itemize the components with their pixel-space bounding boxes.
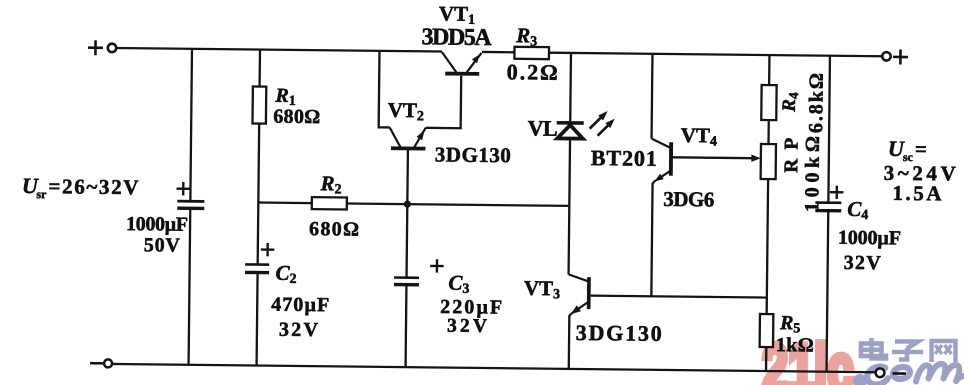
- watermark letter m of .com: [916, 364, 964, 382]
- svg-text:VL: VL: [528, 115, 558, 140]
- transistor VT2 emitter diagonal: [413, 128, 425, 149]
- svg-text:0.2Ω: 0.2Ω: [507, 59, 558, 85]
- wire C4 lower: [827, 211, 829, 372]
- wire C2 lower: [257, 273, 258, 366]
- LED VL cathode bar: [557, 121, 584, 125]
- wire bottom rail: [112, 364, 876, 372]
- plus sign input: [88, 40, 103, 55]
- wire VT2 collector branch: [379, 51, 391, 128]
- transistor VT4 base wire to RP: [673, 156, 752, 159]
- svg-text:680Ω: 680Ω: [273, 106, 320, 129]
- transistor VT4 emitter diagonal: [654, 171, 669, 181]
- svg-text:680Ω: 680Ω: [309, 218, 359, 241]
- svg-text:=: =: [915, 137, 927, 161]
- LED VL triangle: [557, 125, 583, 139]
- capacitor C1 plate bottom: [177, 206, 204, 210]
- watermark 21ic: [762, 331, 853, 385]
- transistor VT2 emitter arrow: [417, 130, 425, 140]
- minus sign bottom right: [893, 372, 906, 375]
- terminal bottom left minus: [104, 359, 112, 367]
- transistor VT2 base bar: [391, 146, 426, 150]
- wire VT4 emitter to VT3 base row: [651, 182, 654, 297]
- svg-text:32V: 32V: [844, 252, 882, 274]
- plus sign C4: [830, 186, 844, 200]
- plus sign C1: [176, 182, 190, 196]
- svg-text:=26~32V: =26~32V: [48, 174, 138, 199]
- transistor VT2 collector diagonal: [389, 127, 401, 148]
- plus sign output: [893, 49, 908, 64]
- transistor VT4 collector diagonal: [651, 139, 669, 148]
- minus sign bottom left: [90, 362, 103, 365]
- capacitor C2 plate bottom: [245, 271, 269, 275]
- watermark hanzi 网: [932, 341, 956, 362]
- resistor R1: [252, 86, 266, 123]
- wire R1 branch upper: [258, 50, 261, 87]
- LED VL light arrow 1: [590, 116, 603, 129]
- wire VT3 collector stem: [567, 206, 570, 274]
- watermark hanzi 电: [861, 338, 886, 359]
- svg-text:sr: sr: [36, 187, 47, 201]
- transistor VT4 base bar: [669, 142, 673, 175]
- svg-text:470µF: 470µF: [271, 294, 329, 317]
- transistor VT3 base bar: [587, 277, 591, 309]
- LED VL light arrow 2: [598, 123, 611, 136]
- wire R4 branch upper: [768, 55, 771, 85]
- capacitor C4 plate top: [815, 201, 841, 204]
- capacitor C4 plate bottom: [815, 209, 841, 213]
- wire C4 branch upper: [828, 56, 830, 203]
- svg-text:1kΩ: 1kΩ: [776, 334, 814, 356]
- wire RP to R5: [767, 179, 768, 314]
- svg-text:3DG130: 3DG130: [435, 142, 511, 167]
- wire C3 lower: [404, 285, 407, 367]
- transistor VT3 emitter diagonal: [571, 302, 587, 313]
- wire R2 row left: [258, 201, 311, 204]
- svg-text:3DD5A: 3DD5A: [421, 24, 492, 51]
- wire VT2 emitter to VT1 base: [426, 75, 462, 128]
- wire R5 to bottom rail: [765, 347, 768, 371]
- wire VT3 base row: [591, 296, 767, 298]
- svg-text:BT201: BT201: [591, 145, 657, 171]
- wire VT4 collector branch: [650, 54, 653, 139]
- wire C3 upper: [405, 204, 408, 277]
- transistor VT1 emitter arrow: [472, 54, 480, 63]
- wire VT2 base stem: [406, 150, 409, 204]
- transistor VT1 base bar: [445, 72, 479, 76]
- wire top rail output side: [482, 52, 882, 56]
- plus sign C2: [261, 243, 275, 257]
- resistor R3: [514, 47, 549, 59]
- wire R2 row right: [347, 203, 569, 205]
- wire VL anode branch: [569, 53, 572, 121]
- RP wiper arrow head: [751, 154, 760, 162]
- watermark dot of .com: [853, 374, 867, 385]
- watermark hanzi 子: [892, 342, 923, 360]
- watermark letter o of .com: [892, 366, 911, 381]
- transistor VT1 collector diagonal: [442, 52, 457, 72]
- svg-text:6.8kΩ: 6.8kΩ: [805, 73, 828, 133]
- capacitor C1 plate top: [177, 200, 204, 203]
- transistor VT3 emitter arrow: [571, 305, 581, 314]
- svg-text:32V: 32V: [279, 319, 319, 341]
- wire VT3 emitter to bottom rail: [569, 314, 571, 369]
- svg-text:1.5A: 1.5A: [892, 181, 942, 206]
- transistor VT3 collector diagonal: [569, 274, 588, 281]
- resistor R2: [312, 197, 347, 209]
- node VT2 base junction: [404, 201, 411, 208]
- svg-text:50V: 50V: [144, 234, 181, 256]
- terminal input plus: [108, 44, 116, 52]
- terminal output plus: [882, 52, 890, 60]
- wire C1 branch lower: [189, 208, 191, 364]
- wire C1 branch upper: [190, 49, 192, 201]
- capacitor C2 plate top: [245, 263, 269, 266]
- potentiometer RP: [761, 144, 776, 179]
- terminal bottom right minus: [876, 368, 885, 377]
- resistor R5: [760, 314, 774, 347]
- transistor VT1 emitter diagonal: [467, 53, 482, 73]
- wire top rail input side: [116, 48, 442, 52]
- transistor VT4 emitter arrow: [654, 174, 663, 182]
- capacitor C3 plate bottom: [394, 283, 419, 287]
- wire R4 to RP: [767, 120, 770, 144]
- wire VL cathode to node: [568, 138, 571, 206]
- svg-text:32V: 32V: [447, 316, 487, 337]
- plus sign C3: [430, 259, 444, 273]
- svg-text:1000µF: 1000µF: [838, 227, 901, 250]
- watermark letter c of .com: [866, 366, 888, 385]
- svg-text:1000µF: 1000µF: [126, 213, 188, 236]
- svg-text:3DG6: 3DG6: [663, 187, 714, 212]
- capacitor C3 plate top: [394, 276, 419, 279]
- wire R1 to C2: [258, 124, 260, 265]
- resistor R4: [761, 85, 776, 120]
